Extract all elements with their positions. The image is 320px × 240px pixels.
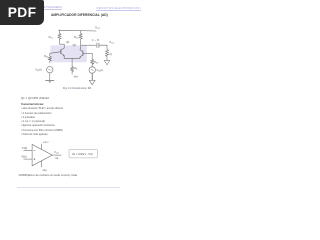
svg-text:Ad: Ad [55,157,59,160]
transistor-pair highlight box [50,45,86,62]
wire emitter Q2 [79,57,81,58]
svg-text:RS2: RS2 [94,61,98,64]
svg-text:Vout: Vout [109,40,114,45]
svg-text:VS1(t): VS1(t) [35,69,42,72]
header right blue text [96,6,141,11]
transistor Q1 [61,48,64,56]
wire capacitor to Vout [99,45,107,49]
title [51,13,107,17]
svg-text:RC2: RC2 [74,35,79,39]
figure caption [63,87,92,90]
resistor RL [106,49,109,58]
capacitor C [97,43,99,48]
node Vout label [109,40,114,45]
svg-text:VS2(t): VS2(t) [96,69,103,72]
wire input V1 [24,149,33,151]
node Vout opamp label [54,151,59,154]
wire base Q2 to Rs2 [91,53,93,59]
svg-text:-VEE: -VEE [73,75,79,78]
svg-text:V1(t): V1(t) [22,147,28,150]
footer rule [17,187,120,188]
node Vcc label [95,25,101,30]
circuit schematic svg [0,0,149,198]
source VS2 label [96,69,103,72]
characteristics text block [21,96,49,100]
resistor RS1 [48,56,51,63]
formula box [69,149,97,158]
PDF badge [0,0,44,25]
resistor RC2 [79,31,82,46]
svg-text:-VEE: -VEE [42,169,48,172]
svg-text:VCC: VCC [95,25,101,30]
transistor Q1 label [66,41,70,44]
wire collector jog Q1 [60,44,65,48]
op-amp U1 [32,144,52,165]
svg-text:Vout: Vout [54,151,59,154]
op-amp minus input mark [34,149,36,151]
svg-text:Q1: Q1 [66,41,70,44]
wire base Q2 [83,52,92,54]
wire input V2 [24,158,33,160]
Vcc rail wire [58,29,96,32]
resistor RC1 value label [49,35,54,39]
node -VEE label [73,75,79,78]
svg-text:C ↔ B: C ↔ B [92,39,99,42]
header left blue text [8,6,62,10]
wire output Vout [52,154,61,156]
bottom CMRR line [19,173,78,177]
svg-text:Vo = Ad(V1 - V2): Vo = Ad(V1 - V2) [72,152,93,156]
node -VEE opamp label [42,169,48,172]
op-amp plus input mark [34,158,36,160]
svg-text:RE: RE [74,67,78,70]
op-amp gain Ad label [55,157,59,160]
source VS1 label [35,69,42,72]
resistor RE [71,58,74,74]
wire -VEE supply [41,161,43,168]
svg-text:V2(t): V2(t) [21,156,27,159]
wire output to capacitor [81,44,97,46]
resistor RE value label [74,67,78,70]
transistor Q2 label [73,44,77,47]
resistor RC1 [58,30,61,44]
wire base Q1 to Rs1 [49,53,51,56]
ground VS1 [45,73,54,83]
wire base Q1 [50,52,61,54]
source VS2 [89,67,95,73]
resistor RS1 value label [44,55,48,58]
node +Vcc label [43,141,50,144]
resistor RS2 [91,59,94,67]
resistor RL value label [110,53,113,56]
transistor Q2 [80,50,83,58]
source VS1 [47,67,53,73]
node V1 label [22,147,28,150]
node V2 label [21,156,27,159]
resistor RS2 value label [94,61,98,64]
svg-text:RS1: RS1 [44,55,48,58]
capacitor C label [92,39,99,42]
wire +Vcc supply [41,144,43,150]
ground RL [104,59,110,65]
svg-text:+VCC: +VCC [43,141,50,144]
resistor RC2 value label [74,35,79,39]
svg-text:RL: RL [110,53,113,56]
wire collector Q2 [79,45,82,50]
svg-text:RC1: RC1 [49,35,54,39]
ground VS2 [89,73,95,85]
wire emitter Q1 [64,55,80,58]
